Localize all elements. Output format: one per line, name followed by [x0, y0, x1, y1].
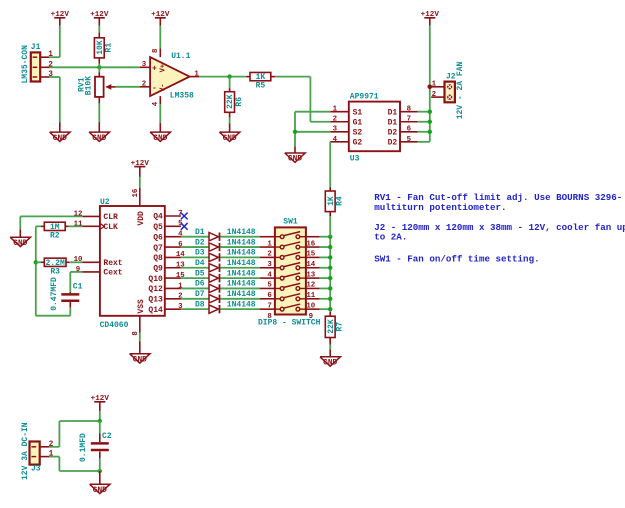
svg-text:R3: R3	[50, 267, 60, 276]
wire J1 pin3 to ground	[49, 77, 60, 132]
junction node output/R6	[227, 74, 231, 78]
svg-text:Q9: Q9	[153, 264, 163, 273]
resistor R3 2.2M	[44, 258, 66, 276]
svg-text:16: 16	[132, 188, 140, 197]
svg-text:J2: J2	[446, 72, 456, 81]
svg-text:Q14: Q14	[148, 306, 163, 315]
junction node SW1 bus row 1	[328, 235, 332, 239]
diode D8 1N4148	[181, 300, 260, 313]
svg-text:Q7: Q7	[153, 244, 163, 253]
svg-text:Q13: Q13	[148, 296, 163, 305]
svg-text:-: -	[152, 84, 157, 93]
svg-text:GND: GND	[323, 360, 337, 368]
svg-text:VSS: VSS	[137, 299, 146, 314]
svg-text:C1: C1	[73, 283, 83, 292]
wire node to R6	[229, 77, 231, 92]
ground (J1 pin 3)	[50, 132, 70, 143]
svg-text:1N4148: 1N4148	[227, 300, 256, 309]
svg-text:D1: D1	[388, 118, 398, 127]
svg-text:4: 4	[152, 101, 160, 106]
wire R6 to ground	[229, 118, 231, 132]
wire J1 pin1 to +12V	[49, 26, 60, 58]
svg-text:Q6: Q6	[153, 233, 163, 242]
svg-text:multiturn potentiometer.: multiturn potentiometer.	[374, 202, 506, 213]
junction node SW1 bus row 8	[328, 307, 332, 311]
wire RV1 bottom to ground	[98, 103, 100, 131]
junction node R1/RV1/wire	[97, 65, 101, 69]
wire +12V to C2 top junction	[99, 411, 101, 421]
wire node to C2 top	[99, 421, 101, 442]
svg-text:D6: D6	[195, 280, 205, 289]
resistor R2 1M	[44, 222, 65, 240]
power +12V (U1 pin 8)	[151, 11, 170, 25]
svg-text:1: 1	[194, 70, 199, 78]
svg-text:1N4148: 1N4148	[227, 259, 256, 268]
svg-text:CLR: CLR	[103, 213, 118, 222]
wire J1 pin2 to U1 non-inverting input	[49, 66, 140, 68]
connector J2 fan output	[431, 61, 465, 119]
junction node SW1 bus row 2	[328, 245, 332, 249]
wire U3 G2 to R4	[329, 142, 331, 191]
resistor R7 22K	[325, 316, 344, 342]
svg-text:SW1 - Fan on/off time setting.: SW1 - Fan on/off time setting.	[374, 253, 539, 264]
connector J1 LM35-CON	[21, 43, 53, 83]
svg-text:LM35-CON: LM35-CON	[21, 45, 30, 84]
svg-text:U2: U2	[100, 198, 110, 207]
svg-text:CD4060: CD4060	[100, 321, 129, 330]
wire +12V to U1 pin 8	[159, 26, 161, 49]
svg-text:Q5: Q5	[153, 223, 163, 232]
svg-text:GND: GND	[92, 135, 106, 143]
svg-text:Cext: Cext	[103, 269, 122, 278]
svg-text:5: 5	[407, 136, 412, 144]
connector J3 DC input	[21, 422, 54, 480]
dip switch SW1 DIP8-SWITCH	[258, 217, 330, 327]
svg-text:D2: D2	[388, 139, 398, 148]
svg-text:0.47MFD: 0.47MFD	[50, 277, 59, 311]
svg-text:to 2A.: to 2A.	[374, 231, 407, 242]
wire +12V to R1	[98, 26, 100, 33]
junction node SW1 bus row 7	[328, 297, 332, 301]
svg-text:Q8: Q8	[153, 254, 163, 263]
wire R5 to U3 G1	[271, 77, 330, 122]
junction node S2	[293, 130, 297, 134]
ground (R7)	[320, 357, 340, 368]
svg-text:Rext: Rext	[103, 259, 122, 268]
power +12V (J2 / U3 drains)	[421, 11, 440, 25]
ground (U3 sources)	[285, 153, 305, 164]
svg-text:9: 9	[309, 313, 313, 321]
svg-text:S1: S1	[353, 108, 363, 117]
wire U1 pin4 to ground	[159, 104, 161, 132]
capacitor C1 0.47MFD	[50, 277, 83, 311]
svg-text:GND: GND	[223, 135, 237, 143]
wire U1 output to R5	[199, 76, 250, 78]
diode D1 1N4148	[181, 228, 260, 241]
junction node +12V/J2 pin1	[428, 85, 433, 90]
svg-text:1N4148: 1N4148	[227, 269, 256, 278]
svg-text:2: 2	[142, 80, 146, 88]
svg-text:J1: J1	[31, 43, 41, 52]
wire J3 pin2 to +12V node	[49, 421, 100, 447]
junction node drain D2a	[428, 130, 432, 134]
wire +12V bus to J2 and U3 drains	[429, 26, 431, 142]
svg-text:Q10: Q10	[148, 275, 163, 284]
junction node drain D1a	[428, 110, 432, 114]
svg-text:GND: GND	[288, 156, 302, 164]
wire U3 drains to J2 bus	[418, 112, 430, 142]
svg-text:G2: G2	[353, 139, 363, 148]
svg-text:1N4148: 1N4148	[227, 280, 256, 289]
svg-text:VDD: VDD	[137, 211, 146, 226]
junction node SW1 bus row 3	[328, 255, 332, 259]
svg-text:R5: R5	[256, 82, 266, 91]
op-amp U1.1 LM358	[140, 48, 200, 106]
svg-text:1: 1	[432, 81, 437, 89]
svg-text:B10K: B10K	[85, 76, 94, 95]
ground (U2 VSS)	[130, 354, 150, 365]
svg-text:2: 2	[333, 116, 337, 124]
resistor R4 1K	[325, 191, 344, 216]
svg-text:V+: V+	[159, 64, 167, 72]
wire U2 CLR to ground	[20, 216, 82, 237]
power +12V (DC input)	[91, 395, 110, 411]
dual mosfet U3 AP9971	[330, 92, 418, 163]
svg-text:GND: GND	[93, 487, 107, 495]
svg-text:Q12: Q12	[148, 285, 163, 294]
svg-text:U1.1: U1.1	[171, 52, 190, 61]
junction node SW1 bus row 5	[328, 276, 332, 280]
junction node SW1 bus row 6	[328, 286, 332, 290]
svg-text:RV1 - Fan Cut-off limit adj. U: RV1 - Fan Cut-off limit adj. Use BOURNS …	[374, 192, 622, 203]
svg-text:3: 3	[333, 126, 338, 134]
no-connect X (Q5)	[181, 223, 188, 230]
svg-text:SW1: SW1	[283, 217, 298, 226]
wire C2 bottom to ground node	[99, 452, 101, 471]
svg-text:GND: GND	[13, 240, 27, 248]
svg-text:8: 8	[152, 48, 160, 53]
svg-text:1: 1	[333, 106, 338, 114]
note text block	[374, 192, 625, 265]
diode D2 1N4148	[181, 238, 260, 251]
wire RV1 wiper to U1 inverting input	[116, 86, 140, 88]
svg-text:1: 1	[48, 51, 53, 59]
junction node drain D1b	[428, 120, 432, 124]
svg-text:8: 8	[407, 106, 412, 114]
svg-text:LM358: LM358	[170, 91, 194, 100]
svg-text:1N4148: 1N4148	[227, 290, 256, 299]
svg-text:D1: D1	[388, 108, 398, 117]
wire R4 to SW1 bus	[329, 216, 331, 237]
svg-text:0.1MFD: 0.1MFD	[79, 433, 88, 462]
svg-text:GND: GND	[153, 135, 167, 143]
diode D4 1N4148	[181, 259, 260, 272]
capacitor C2 0.1MFD	[79, 432, 112, 462]
svg-text:4: 4	[333, 136, 338, 144]
ground (C2 / J3)	[90, 484, 110, 495]
wire R7 to ground	[329, 338, 331, 357]
diode D3 1N4148	[181, 249, 260, 262]
svg-text:1N4148: 1N4148	[227, 228, 256, 237]
svg-text:R6: R6	[235, 97, 244, 107]
junction node SW1 bus row 4	[328, 266, 332, 270]
wire R2 to U2 CLK	[65, 225, 82, 227]
svg-text:U3: U3	[350, 154, 360, 163]
wire U2 VSS to ground	[139, 333, 141, 354]
svg-text:12V - 2A FAN: 12V - 2A FAN	[456, 61, 465, 119]
svg-text:D5: D5	[195, 269, 205, 278]
wire U2 Cext to C1	[70, 272, 82, 293]
diode D5 1N4148	[181, 269, 260, 282]
svg-text:C2: C2	[102, 432, 112, 441]
svg-text:D1: D1	[195, 228, 205, 237]
svg-text:R2: R2	[50, 231, 60, 240]
svg-text:CLK: CLK	[103, 223, 118, 232]
diode D7 1N4148	[181, 290, 260, 303]
svg-text:J2 - 120mm x 120mm x 38mm - 12: J2 - 120mm x 120mm x 38mm - 12V, cooler …	[374, 222, 625, 233]
svg-text:R7: R7	[335, 322, 344, 332]
wire U3 S1/S2 to ground	[295, 112, 330, 153]
diode D6 1N4148	[181, 280, 260, 293]
svg-text:7: 7	[407, 116, 411, 124]
junction node R3 left	[34, 260, 38, 264]
svg-text:6: 6	[407, 126, 412, 134]
svg-text:1N4148: 1N4148	[227, 238, 256, 247]
ic U2 CD4060	[74, 188, 186, 336]
svg-text:D4: D4	[195, 259, 205, 268]
svg-text:2: 2	[432, 91, 436, 99]
potentiometer RV1 B10K	[78, 67, 116, 103]
wire +12V to U2 VDD	[139, 177, 141, 188]
svg-text:J3: J3	[31, 465, 41, 474]
svg-text:D2: D2	[388, 129, 398, 138]
svg-text:3: 3	[142, 61, 147, 69]
svg-text:D7: D7	[195, 290, 205, 299]
power +12V (J1 pin 1)	[51, 11, 70, 25]
junction node C2 top	[98, 419, 102, 423]
junction node C2 bottom	[98, 469, 102, 473]
svg-text:GND: GND	[53, 135, 67, 143]
resistor R6 22K	[225, 92, 244, 118]
svg-text:+: +	[152, 65, 157, 74]
wire R3 left to node	[36, 261, 45, 263]
wire R1 bottom to node	[98, 64, 100, 68]
wire SW1 bus to R7	[329, 312, 331, 316]
ground (R6)	[219, 132, 239, 143]
svg-text:S2: S2	[353, 129, 363, 138]
svg-text:D3: D3	[195, 249, 205, 258]
power +12V (U2 VDD)	[131, 160, 150, 177]
svg-text:GND: GND	[133, 356, 147, 364]
svg-text:AP9971: AP9971	[350, 92, 379, 101]
svg-text:8: 8	[267, 313, 272, 321]
svg-text:D8: D8	[195, 300, 205, 309]
svg-text:12V 3A DC-IN: 12V 3A DC-IN	[21, 422, 30, 480]
svg-text:R4: R4	[335, 196, 344, 206]
wire SW1 common bus	[329, 237, 331, 312]
power +12V (R1)	[90, 11, 109, 38]
ground (RV1)	[89, 132, 109, 143]
wire R2 left to oscillator net	[36, 226, 71, 315]
svg-text:V-: V-	[159, 83, 167, 91]
svg-text:R1: R1	[105, 43, 114, 53]
ground (U2 CLR)	[10, 237, 30, 248]
resistor R5 1K	[250, 72, 271, 90]
ground (U1 pin 4)	[150, 132, 170, 143]
wire C1 bottom to oscillator net	[69, 302, 71, 316]
wire R3 right to U2 Rext	[66, 261, 82, 263]
svg-text:G1: G1	[353, 118, 363, 127]
svg-text:1N4148: 1N4148	[227, 249, 256, 258]
svg-text:Q4: Q4	[153, 213, 163, 222]
wire J3 pin1 to ground node	[49, 457, 100, 471]
svg-text:D2: D2	[195, 238, 205, 247]
wire ground node to ground symbol	[99, 471, 101, 484]
resistor R1 10K	[94, 38, 113, 64]
no-connect X (Q4)	[181, 213, 188, 220]
